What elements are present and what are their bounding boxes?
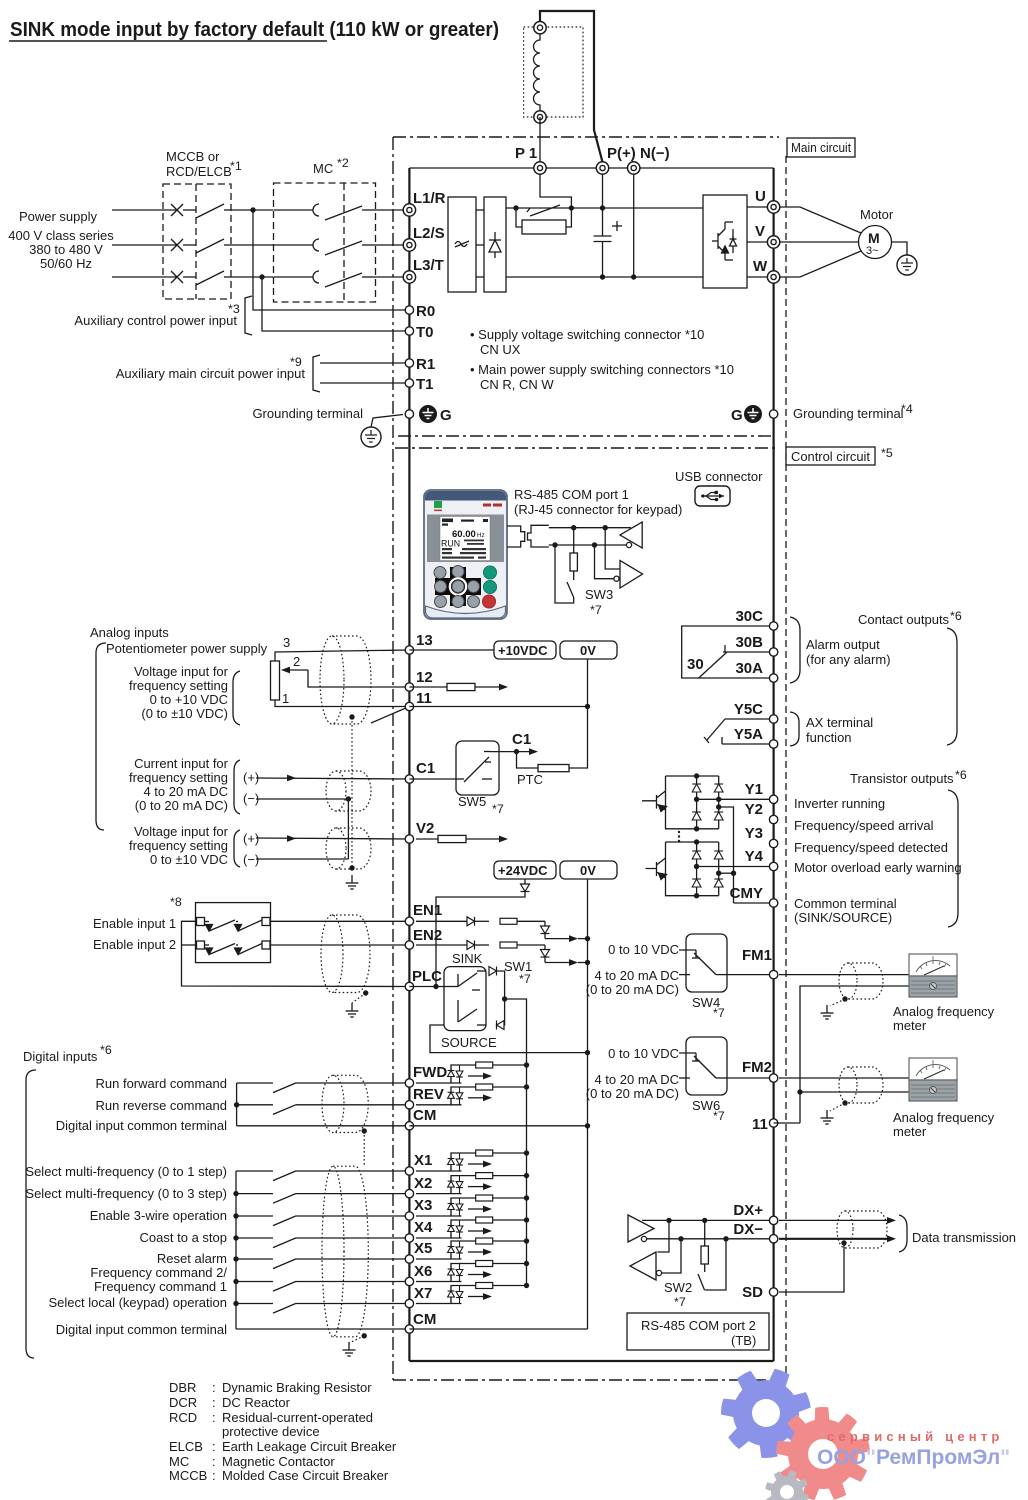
digital inputs brace [26, 1070, 36, 1358]
switch SW2 [698, 1239, 726, 1290]
bracket c1 [234, 760, 240, 814]
transistor outputs big bracket [948, 790, 958, 927]
svg-text:12: 12 [416, 669, 433, 686]
wire 0V down [587, 659, 589, 707]
wire driver in top [605, 528, 620, 569]
wire DX- out [779, 1238, 888, 1240]
svg-text:Current input for: Current input for [134, 756, 229, 771]
node L3 tap [259, 274, 264, 279]
bracket AX terminal [790, 712, 799, 746]
node pc1 bottom [694, 826, 699, 831]
top DC bus wire [409, 167, 773, 169]
main circuit bottom dash-dot border [398, 435, 775, 437]
svg-text:RS-485 COM port 2: RS-485 COM port 2 [641, 1318, 756, 1333]
EN1 to rail [578, 938, 588, 940]
0V common rail [587, 879, 589, 1329]
svg-text:*8: *8 [170, 895, 182, 909]
EN1 input circuit: diode resistor diode arrow [416, 921, 570, 938]
svg-text:4 to 20 mA DC: 4 to 20 mA DC [594, 968, 679, 983]
0V box 2 [560, 861, 617, 879]
svg-text:X1: X1 [414, 1152, 432, 1169]
photocoupler X1 [416, 1150, 529, 1171]
logo gear red [776, 1407, 870, 1500]
MCCB pole L1 [171, 204, 231, 218]
keypad logo [434, 501, 442, 508]
svg-text:Motor overload early warning: Motor overload early warning [794, 860, 962, 875]
svg-text::: : [212, 1395, 216, 1410]
svg-text:1: 1 [282, 691, 289, 706]
terminal 30C [769, 622, 777, 630]
wire 11 to return rail [774, 1122, 800, 1124]
wire DX+ out [779, 1219, 888, 1221]
wire C1 minus [256, 798, 348, 800]
wire W out [747, 276, 774, 278]
shield capsule meter2 [848, 1067, 883, 1103]
photocoupler output circuit 2 [646, 842, 719, 896]
wire DX- line [646, 1238, 774, 1240]
svg-text:C1: C1 [416, 760, 435, 777]
svg-text:meter: meter [893, 1124, 927, 1139]
svg-text:MCCB: MCCB [169, 1468, 207, 1483]
svg-text:Hz: Hz [477, 532, 485, 539]
svg-text:Frequency command 2/: Frequency command 2/ [90, 1265, 227, 1280]
svg-text:Y5C: Y5C [734, 701, 763, 718]
earth shield analog [346, 875, 359, 889]
buffer receiver U3 [620, 522, 642, 548]
svg-text:X6: X6 [414, 1263, 432, 1280]
terminal L1/R [403, 204, 415, 216]
+10VDC box [494, 641, 556, 659]
terminal N(-) [628, 162, 640, 174]
svg-text:4 to 20 mA DC: 4 to 20 mA DC [594, 1072, 679, 1087]
wire R0 aux [253, 210, 409, 310]
terminal P(+) [596, 162, 608, 174]
svg-text:50/60 Hz: 50/60 Hz [40, 256, 92, 271]
terminal EN1 [405, 917, 413, 925]
svg-text:frequency setting: frequency setting [129, 770, 228, 785]
svg-text:CN UX: CN UX [480, 342, 521, 357]
svg-text:(TB): (TB) [731, 1333, 756, 1348]
wire FM1 [727, 974, 774, 976]
shield capsule fwd group [333, 1075, 368, 1132]
wires converter links [476, 209, 484, 211]
terminal R0 [405, 306, 413, 314]
svg-text:RUN: RUN [441, 539, 460, 549]
node return fm2 [797, 1089, 802, 1094]
svg-text:• Supply voltage switching con: • Supply voltage switching connector *10 [470, 327, 704, 342]
svg-text:X5: X5 [414, 1240, 432, 1257]
svg-text:Data transmission: Data transmission [912, 1230, 1016, 1245]
title underline [9, 40, 327, 42]
svg-text:PTC: PTC [517, 772, 543, 787]
photocoupler REV [416, 1084, 529, 1105]
analog group brace [96, 643, 106, 830]
wire U to motor [780, 207, 861, 233]
svg-text:frequency setting: frequency setting [129, 838, 228, 853]
svg-text:T1: T1 [416, 376, 434, 393]
wire EN1 [270, 920, 409, 922]
contact outputs big bracket [947, 628, 957, 745]
svg-text:Grounding terminal: Grounding terminal [793, 406, 904, 421]
FWD switch line [237, 1082, 410, 1084]
wire P1 to charge circuit [540, 174, 571, 208]
svg-text:Enable input 1: Enable input 1 [93, 916, 176, 931]
SW1 source diode [497, 1021, 505, 1030]
terminal X5 [405, 1255, 413, 1263]
svg-text:ООО"РемПромЭл": ООО"РемПромЭл" [817, 1446, 1010, 1469]
node pc1 top [694, 773, 699, 778]
node shield fwd [362, 1128, 367, 1133]
potentiometer POT [271, 661, 280, 700]
X switch lines [236, 1171, 409, 1313]
wire PLC to SW1 [409, 986, 444, 988]
earth shield m1 [821, 1005, 834, 1019]
svg-text:Enable 3-wire operation: Enable 3-wire operation [90, 1208, 227, 1223]
svg-text:CM: CM [413, 1311, 436, 1328]
bracket v1 [233, 671, 240, 725]
wire DX+ line [642, 1219, 774, 1221]
svg-text:L3/T: L3/T [413, 257, 444, 274]
svg-text:Digital inputs: Digital inputs [23, 1049, 98, 1064]
SW4 contacts [679, 950, 727, 975]
terminal R1 [405, 359, 413, 367]
wire W to motor [780, 251, 861, 277]
wire FM2 to meter [779, 1077, 909, 1079]
terminal CMY [769, 899, 777, 907]
breaker MCCB dashed box [163, 184, 231, 299]
svg-text:FM2: FM2 [742, 1059, 772, 1076]
shield x drain dotted [349, 1336, 364, 1343]
wire V2 minus [256, 858, 348, 860]
terminal 12 [405, 683, 413, 691]
data transmission bracket [899, 1215, 907, 1252]
node P+ DC bus [600, 205, 605, 210]
svg-text:SD: SD [742, 1284, 763, 1301]
terminal FM1 [769, 970, 777, 978]
terminal FWD [405, 1079, 413, 1087]
buffer driver DX [628, 1215, 654, 1242]
svg-text:Y5A: Y5A [734, 726, 763, 743]
logo gear blue [721, 1369, 811, 1458]
svg-text:DX+: DX+ [733, 1202, 763, 1219]
svg-text::: : [212, 1380, 216, 1395]
wire T0 aux [262, 277, 409, 331]
wire V to motor [780, 241, 859, 243]
svg-text:0 to 10 VDC: 0 to 10 VDC [608, 942, 679, 957]
SW6 contacts [679, 1053, 727, 1078]
bracket v2 [234, 830, 240, 867]
svg-text:(for any alarm): (for any alarm) [806, 652, 891, 667]
svg-text:0V: 0V [580, 643, 596, 658]
svg-text:function: function [806, 730, 852, 745]
earth shield m2 [821, 1110, 834, 1124]
terminal 30B [769, 648, 777, 656]
shield m2 drain [830, 1103, 845, 1111]
terminal Y1 [769, 795, 777, 803]
meter 2 [909, 1058, 957, 1101]
wire T1 aux [320, 382, 409, 384]
svg-text:EN2: EN2 [413, 927, 442, 944]
converter symbol [455, 241, 469, 247]
svg-text:ELCB: ELCB [169, 1439, 203, 1454]
wire C1 plus [256, 778, 409, 779]
svg-text:L2/S: L2/S [413, 225, 445, 242]
wire SW1 to pc bus [505, 999, 527, 1065]
keypad cross pad [435, 567, 481, 606]
CM2 line [236, 1328, 409, 1330]
MC pole L2 [274, 239, 376, 255]
svg-text:Contact outputs: Contact outputs [858, 612, 950, 627]
svg-text:MC: MC [169, 1454, 189, 1469]
SECTION: legend-logo [169, 1369, 1010, 1500]
svg-text:DX−: DX− [733, 1221, 763, 1238]
wire FM2 [727, 1077, 774, 1079]
shield m1 drain [830, 999, 845, 1006]
control circuit top dash-dot border [395, 447, 775, 449]
terminal C1 [405, 775, 413, 783]
rectifier diode symbol [489, 232, 501, 258]
SW1 internals [444, 971, 486, 1025]
node cap bottom [600, 274, 605, 279]
wire phase L1 [112, 209, 176, 211]
svg-text:Reset alarm: Reset alarm [157, 1251, 227, 1266]
svg-text:*2: *2 [337, 156, 349, 170]
svg-text:Dynamic Braking Resistor: Dynamic Braking Resistor [222, 1380, 372, 1395]
enable contacts row1 [197, 918, 271, 932]
wire 13 to +10VDC [409, 649, 494, 651]
wire meter2 return [800, 1091, 909, 1093]
wire 24V to PLC [436, 892, 525, 988]
svg-text:Frequency command 1: Frequency command 1 [94, 1279, 227, 1294]
CM1 line [237, 1125, 410, 1127]
wire DCR bypass jumper [540, 11, 603, 162]
svg-text:Select multi-frequency (0 to 3: Select multi-frequency (0 to 3 step) [25, 1186, 227, 1201]
shield drain dotted [351, 717, 353, 868]
svg-text:Alarm output: Alarm output [806, 637, 880, 652]
wire shield1 to 11 [371, 707, 409, 724]
bracket alarm output [790, 617, 800, 683]
pot wiper arrow [288, 669, 308, 671]
node shield enable [363, 990, 368, 995]
FWD-CM left bus [236, 1083, 238, 1126]
switch SW6 box [686, 1037, 727, 1095]
terminal V [767, 236, 779, 248]
svg-text:Motor: Motor [860, 207, 894, 222]
inverter IGBT box [703, 195, 747, 288]
svg-text:(SINK/SOURCE): (SINK/SOURCE) [794, 910, 892, 925]
svg-text:PLC: PLC [412, 968, 442, 985]
motor earth electrode [897, 255, 917, 275]
keypad top bar [425, 491, 506, 501]
diode 24V feed [524, 879, 526, 884]
svg-text:*1: *1 [230, 159, 242, 173]
svg-text:Run reverse command: Run reverse command [96, 1098, 228, 1113]
keypad screen frame [427, 515, 504, 563]
svg-text:*7: *7 [713, 1006, 725, 1020]
node pc2 bottom [694, 893, 699, 898]
wire CM2 to rail [409, 1328, 587, 1330]
svg-text:SW3: SW3 [585, 587, 613, 602]
EN2 input circuit [416, 945, 570, 963]
svg-text:Frequency/speed detected: Frequency/speed detected [794, 840, 948, 855]
svg-text:0 to 10 VDC: 0 to 10 VDC [608, 1046, 679, 1061]
wire com1 bottom [549, 544, 626, 546]
earth shield x [343, 1342, 356, 1356]
svg-text:G: G [731, 407, 743, 424]
terminal 11 [405, 702, 413, 710]
SECTION: outputs-right [586, 608, 995, 1139]
svg-text:*7: *7 [590, 603, 602, 617]
photocoupler X6 [416, 1261, 529, 1282]
wire pc2 to CMY rail [719, 872, 734, 874]
REV switch line [237, 1104, 410, 1106]
RS-485 COM port 2 box [627, 1313, 769, 1350]
MC pole L3 [274, 271, 376, 287]
motor M [859, 226, 892, 259]
svg-text:Control circuit: Control circuit [791, 449, 870, 464]
svg-text:Potentiometer power supply: Potentiometer power supply [106, 641, 268, 656]
node shield m2 [842, 1100, 847, 1105]
terminal X1 [405, 1167, 413, 1175]
+24VDC box [494, 861, 556, 879]
svg-text:400 V class series: 400 V class series [8, 228, 114, 243]
svg-text:Auxiliary main circuit power i: Auxiliary main circuit power input [116, 366, 306, 381]
svg-text:11: 11 [416, 690, 432, 707]
svg-text:Analog inputs: Analog inputs [90, 625, 169, 640]
Y5 contact wiring [704, 719, 774, 744]
enclosure right dashed border [785, 156, 787, 1380]
node source-rail [585, 1050, 590, 1055]
shield capsule dx [845, 1211, 887, 1248]
wire SOURCE loop [430, 1025, 588, 1053]
logo gear gray [765, 1470, 809, 1500]
wire driver in bottom [595, 545, 614, 579]
SECTION: main-circuit [409, 11, 917, 292]
terminal W [767, 271, 779, 283]
MCCB pole L3 [171, 271, 231, 285]
wire MCCB to MC L1 [231, 209, 273, 211]
svg-text:R0: R0 [416, 303, 435, 320]
shield enable drain dotted [352, 993, 366, 1003]
wire N(-) down [633, 174, 635, 277]
svg-text::: : [212, 1468, 216, 1483]
svg-text:(0 to 20 mA DC): (0 to 20 mA DC) [586, 1086, 679, 1101]
USB connector icon [695, 486, 730, 506]
terminal Y4 [769, 862, 777, 870]
wire 11 to 0V [409, 706, 587, 708]
Control circuit label box [786, 447, 875, 465]
terminal PLC [405, 982, 413, 990]
svg-text:(0 to 20 mA DC): (0 to 20 mA DC) [135, 798, 228, 813]
svg-text::: : [212, 1410, 216, 1425]
svg-text:X2: X2 [414, 1175, 432, 1192]
capacitor plates [594, 236, 612, 242]
svg-text:30C: 30C [735, 608, 763, 625]
svg-text:T0: T0 [416, 324, 434, 341]
converter block box [448, 197, 476, 292]
DCR top terminal [534, 22, 546, 34]
terminal P1 [534, 162, 546, 174]
ground electrode left [361, 427, 381, 447]
photocoupler output circuit 1 [642, 776, 719, 829]
shield link dotted [363, 1131, 365, 1166]
node pc2 top [694, 839, 699, 844]
node C1 minus [346, 796, 351, 801]
photocoupler bus [526, 1065, 528, 1286]
svg-text:CMY: CMY [730, 885, 763, 902]
svg-text:Enable input 2: Enable input 2 [93, 937, 176, 952]
svg-text:3~: 3~ [866, 245, 879, 257]
terminal 13 [405, 646, 413, 654]
wire DC+ to inverter block [603, 207, 704, 209]
svg-text:Residual-current-operated: Residual-current-operated [222, 1410, 373, 1425]
wire DCR bottom to P1 [539, 117, 541, 168]
svg-text:Frequency/speed arrival: Frequency/speed arrival [794, 818, 934, 833]
bracket aux main [313, 355, 320, 392]
wire SW5 out C1 arrow [490, 751, 530, 753]
resistor SW3 pullup [573, 528, 575, 553]
wire meter1 return [800, 986, 909, 1123]
svg-text:P 1: P 1 [515, 145, 537, 162]
wire C1 to SW5 [409, 778, 456, 780]
svg-text:USB connector: USB connector [675, 469, 763, 484]
SW1 sink diode [489, 967, 497, 976]
svg-text:DCR: DCR [169, 1395, 197, 1410]
node L1 tap [250, 207, 255, 212]
SECTION: power-input [8, 149, 913, 447]
svg-text:Voltage input for: Voltage input for [134, 824, 229, 839]
svg-text:*6: *6 [950, 609, 962, 623]
photocoupler X2 [416, 1173, 529, 1194]
node com1 a [571, 525, 576, 530]
svg-text:(0 to ±10 VDC): (0 to ±10 VDC) [141, 706, 228, 721]
bracket aux control [245, 296, 252, 335]
terminal FM2 [769, 1074, 777, 1082]
inverter enclosure left dash-dot border [392, 137, 394, 1380]
svg-text:*9: *9 [290, 355, 302, 369]
dots continuation [678, 831, 680, 842]
wire MCCB to MC L3 [231, 276, 273, 278]
svg-text:G: G [440, 407, 452, 424]
svg-text:Analog frequency: Analog frequency [893, 1004, 995, 1019]
SECTION: enclosure [393, 137, 893, 1380]
svg-text:Voltage input for: Voltage input for [134, 664, 229, 679]
svg-text:SW5: SW5 [458, 794, 486, 809]
svg-text:protective device: protective device [222, 1424, 320, 1439]
EN2 to rail [578, 962, 588, 964]
SECTION: keypad-usb [424, 469, 763, 619]
shield capsule analog 3 [336, 828, 371, 869]
switch SW3 [555, 545, 574, 603]
svg-text:Run forward command: Run forward command [96, 1076, 228, 1091]
SECTION: digital [23, 861, 617, 1358]
logo gear red hole [808, 1439, 838, 1469]
terminal EN2 [405, 941, 413, 949]
shield capsule analog 1 [332, 636, 371, 724]
svg-text:SW2: SW2 [664, 1280, 692, 1295]
switch SW1 sink-source box [444, 967, 486, 1031]
svg-text:Select multi-frequency (0 to 1: Select multi-frequency (0 to 1 step) [25, 1164, 227, 1179]
svg-text:W: W [753, 258, 768, 275]
svg-text:*6: *6 [100, 1043, 112, 1057]
MC linkage dashed line [343, 183, 345, 302]
terminating resistor [704, 1220, 706, 1246]
switch SW4 box [686, 934, 727, 992]
capacitor plus sign [612, 221, 622, 231]
pc1 diodes [692, 784, 723, 820]
svg-text::: : [212, 1454, 216, 1469]
svg-text:X7: X7 [414, 1285, 432, 1302]
